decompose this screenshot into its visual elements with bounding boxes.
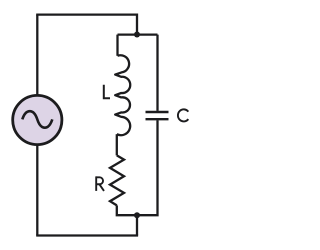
inductor L [115,55,130,135]
ac source sine wave [22,111,52,127]
wire top branch rail [118,33,158,35]
wire bottom junction drop [136,215,138,235]
label C [178,109,188,121]
wire inductor branch top [116,35,118,56]
wire capacitor branch bottom [137,120,158,215]
wire inductor to resistor [116,134,118,155]
wire left vertical [36,15,38,236]
node bottom junction [134,212,140,218]
ac source V1 [13,95,62,144]
wire resistor bottom [117,205,137,215]
resistor R [110,155,124,205]
label R [96,176,104,191]
wire bottom rail [36,234,138,236]
capacitor C plates [146,112,169,119]
wire capacitor branch top [156,35,158,111]
wire top rail [36,15,137,32]
node top junction [134,32,140,38]
label L [104,85,110,98]
